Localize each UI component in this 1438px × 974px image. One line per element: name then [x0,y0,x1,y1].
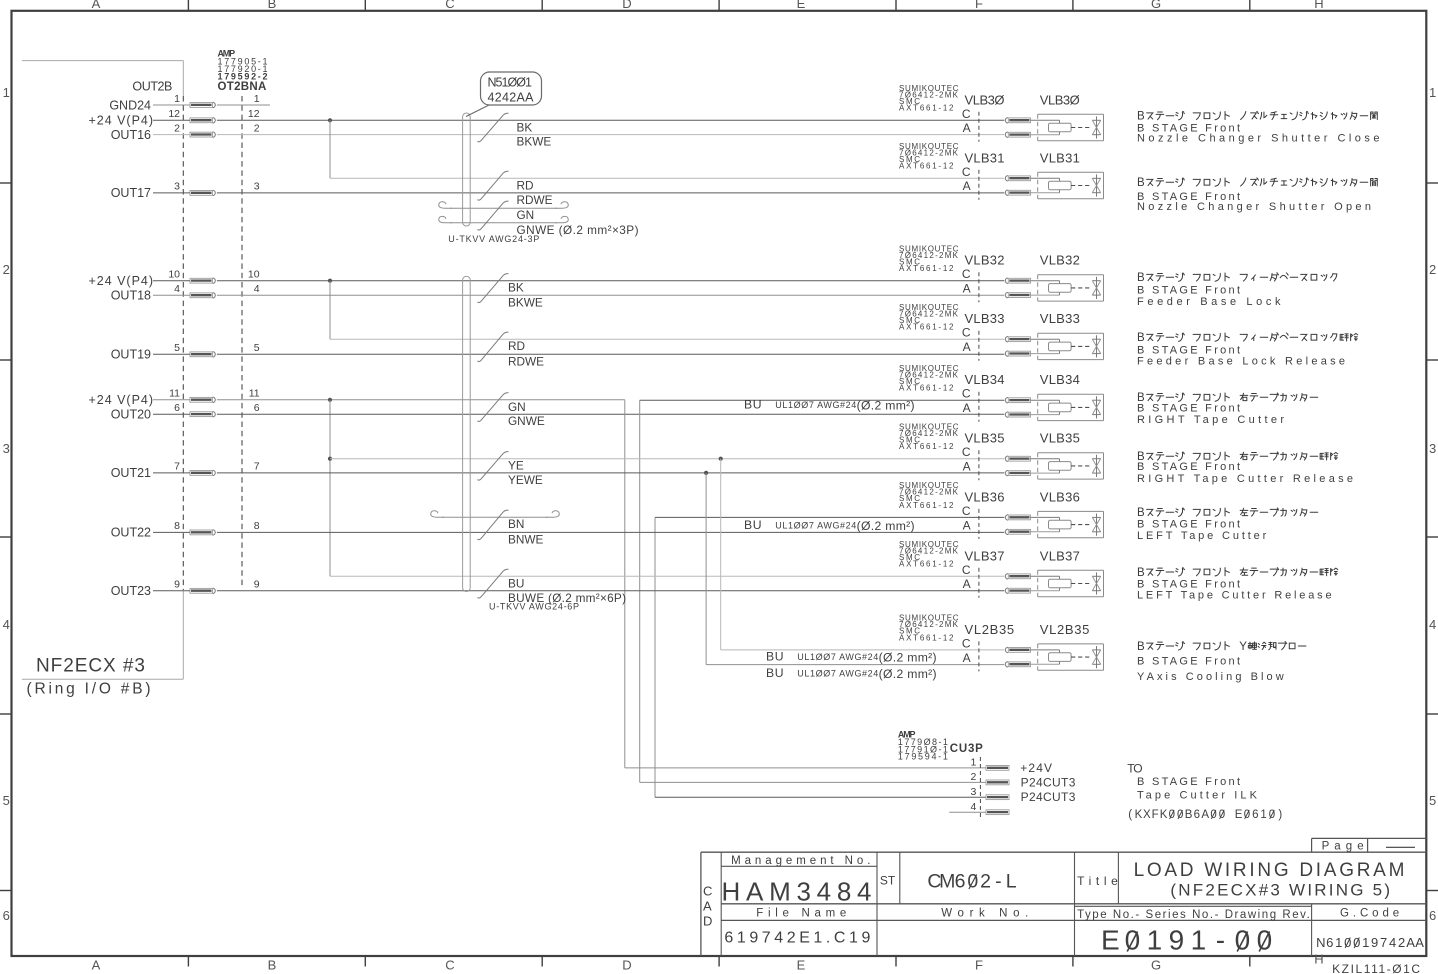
svg-text:179594-1: 179594-1 [898,752,948,762]
junction node +24V(10)/RD jog [328,279,332,283]
wire BU to VL2B35 A [706,664,1004,666]
wire CU3P pin3 P24CUT3 [655,796,986,798]
svg-text:6: 6 [1252,809,1258,821]
wire BU to VL2B35 C [721,649,1005,651]
svg-text:A: A [963,340,971,354]
svg-text:CU3P: CU3P [950,743,983,755]
svg-text:P24CUT3: P24CUT3 [1021,790,1076,804]
twisted pair BK/BKWE marker and labels [478,274,543,310]
svg-text:H: H [1314,0,1323,11]
svg-text:AXT661-12: AXT661-12 [899,264,954,273]
svg-text:P24CUT3: P24CUT3 [1021,775,1076,789]
svg-text:OUT21: OUT21 [111,466,151,480]
wire RD jog vertical from +24V(12) [329,120,331,178]
VLB30 description text [1137,111,1380,145]
svg-text:2: 2 [1429,262,1436,277]
title block type/series/drawing rev [1077,909,1310,956]
OT2B pin 6 (OUT20) terminal [111,402,260,422]
svg-text:3: 3 [3,441,10,456]
svg-text:1: 1 [174,93,180,105]
wire OUT16 pin2 (BKWE) to VLB30 A [153,134,1004,136]
svg-text:C: C [962,445,971,459]
cable sheath N51001 (U-TKVV AWG24-3P) [463,113,471,226]
solenoid valve VLB30 [899,84,1104,142]
wire OUT21 pin7 (YEWE) to VLB35 A [153,472,1004,474]
solenoid valve VLB32 [899,244,1104,302]
svg-text:VLB34: VLB34 [1040,372,1080,387]
svg-text:BK: BK [508,281,524,295]
svg-text:VLB31: VLB31 [1040,150,1080,165]
svg-text:VLB3Ø: VLB3Ø [965,92,1005,107]
svg-text:E: E [797,958,806,973]
wire label BU UL1007 (VL2B35 A) [766,666,937,681]
svg-text:K: K [1135,809,1143,821]
svg-text:(Ø.2 mm²): (Ø.2 mm²) [857,519,915,533]
solenoid valve VLB37 [899,540,1104,598]
svg-text:1: 1 [1191,924,1207,955]
svg-text:4: 4 [254,283,260,295]
svg-text:6: 6 [1326,935,1333,950]
wire vertical branch to VL2B35 C [720,459,722,650]
svg-text:4: 4 [970,801,976,813]
svg-text:-: - [1216,924,1225,955]
svg-text:6: 6 [1429,908,1436,923]
connector CU3P part numbers (AMP) [898,730,983,762]
svg-text:L: L [1006,871,1017,893]
svg-text:C: C [962,326,971,340]
svg-text:+24 V(P4): +24 V(P4) [89,114,154,128]
svg-text:1: 1 [1260,809,1266,821]
title block file name [724,907,870,946]
solenoid valve VLB34 [899,364,1104,422]
svg-text:AXT661-12: AXT661-12 [899,162,954,171]
svg-text:D: D [622,958,631,973]
svg-text:4: 4 [1429,617,1436,632]
VL2B35 description text [1137,641,1306,683]
title block title [1077,860,1404,900]
svg-text:A: A [963,577,971,591]
svg-text:AXT661-12: AXT661-12 [899,633,954,642]
svg-text:OT2BNA: OT2BNA [218,81,267,93]
junction node YE branch [328,457,332,461]
svg-text:2: 2 [1398,935,1405,950]
svg-text:12: 12 [168,108,180,120]
svg-text:BKWE: BKWE [517,135,552,149]
title block page cell [1312,838,1427,852]
OT2B pin 4 (OUT18) terminal [111,283,260,303]
svg-text:3: 3 [970,786,976,798]
svg-text:E: E [1101,924,1120,955]
OT2B pin 10 (+24 V(P4)) terminal [89,269,260,289]
svg-text:OUT17: OUT17 [111,186,151,200]
twisted pair GN/GNWE marker and labels [478,201,639,237]
svg-text:F: F [975,958,983,973]
svg-text:(Ø.2 mm²): (Ø.2 mm²) [857,399,915,413]
svg-text:YAxis Cooling Blow: YAxis Cooling Blow [1137,671,1284,683]
svg-text:8: 8 [174,520,180,532]
title block [701,852,1426,956]
svg-text:OUT20: OUT20 [111,408,151,422]
svg-text:N: N [1316,935,1325,950]
solenoid valve VLB33 [899,303,1104,361]
svg-text:6: 6 [174,402,180,414]
svg-text:7: 7 [1380,935,1387,950]
svg-text:VLB31: VLB31 [965,150,1005,165]
solenoid valve VLB36 [899,481,1104,539]
twisted pair YE/YEWE marker and labels [478,452,543,487]
svg-text:BU: BU [744,398,762,412]
svg-text:M: M [939,871,955,893]
svg-text:YE: YE [508,459,524,473]
svg-text:B: B [268,0,277,11]
svg-text:7: 7 [174,461,180,473]
svg-text:B: B [1137,567,1145,579]
wire +24V(P4) pin12 (BK) to VLB30 C [153,119,1004,121]
svg-text:B: B [1185,809,1193,821]
svg-text:VLB37: VLB37 [1040,548,1080,563]
svg-text:A: A [1406,935,1415,950]
svg-text:BU: BU [744,518,762,532]
svg-text:2: 2 [970,771,976,783]
svg-text:+24V: +24V [1020,761,1052,775]
CU3P pin 4 terminal [970,801,1009,815]
CU3P destination note [1127,762,1282,822]
svg-text:C: C [703,884,712,899]
svg-text:VLB37: VLB37 [965,548,1005,563]
svg-text:G: G [1151,958,1161,973]
junction node +24V(12)/RD jog [328,118,332,122]
svg-text:RDWE: RDWE [517,193,553,207]
VLB33 description text [1137,332,1358,367]
svg-text:LOAD WIRING DIAGRAM: LOAD WIRING DIAGRAM [1134,860,1405,881]
OT2B pin 7 (OUT21) terminal [111,461,260,481]
unused wire BN (coiled both ends) [431,511,559,517]
svg-text:F: F [1152,809,1159,821]
svg-text:K: K [1160,809,1168,821]
OT2B pin 12 (+24 V(P4)) terminal [89,108,260,128]
svg-text:OUT2B: OUT2B [132,79,172,93]
svg-text:3: 3 [254,181,260,193]
svg-text:F: F [975,0,983,11]
wire BU (P24CUT3) from CU3P pin3 to VLB36 C [655,517,1004,797]
svg-text:2: 2 [174,122,180,134]
CU3P pin 1 terminal [970,757,1052,775]
svg-text:LEFT Tape Cutter: LEFT Tape Cutter [1137,530,1267,542]
svg-text:File Name: File Name [756,907,846,919]
svg-text:A: A [92,958,101,973]
svg-text:9: 9 [1371,935,1378,950]
junction node VL2B35 C branch [719,457,723,461]
svg-text:6: 6 [1194,809,1200,821]
svg-text:5: 5 [1429,793,1436,808]
svg-text:C: C [962,107,971,121]
svg-text:A: A [963,651,971,665]
svg-text:1: 1 [3,85,10,100]
svg-text:VL2B35: VL2B35 [1040,622,1090,637]
wire RD to VLB33 C [330,338,1004,340]
svg-text:OUT16: OUT16 [111,128,151,142]
wire GND24 pin1 stub [153,104,270,106]
svg-text:AXT661-12: AXT661-12 [899,104,954,113]
svg-text:5: 5 [3,793,10,808]
wire CU3P pin2 P24CUT3 [640,781,986,783]
svg-text:BN: BN [508,517,524,531]
OT2B pin 2 (OUT16) terminal [111,122,260,142]
svg-text:VLB33: VLB33 [965,311,1005,326]
svg-text:E: E [797,0,806,11]
CU3P pin 3 terminal [970,786,1075,804]
svg-text:UL1ØØ7 AWG#24: UL1ØØ7 AWG#24 [775,521,856,531]
svg-text:AXT661-12: AXT661-12 [899,442,954,451]
svg-text:LEFT Tape Cutter Release: LEFT Tape Cutter Release [1137,590,1332,602]
wire OUT19 pin5 (RDWE) to VLB33 A [153,353,1004,355]
svg-text:Title: Title [1077,874,1118,888]
svg-text:N51ØØ1: N51ØØ1 [488,75,533,89]
svg-text:A: A [1201,809,1209,821]
twisted pair RD/RDWE marker and labels [478,332,545,368]
NF2ECX #3 Ring I/O unit boundary box [22,61,183,680]
svg-text:VLB35: VLB35 [965,431,1005,446]
connector OT2B dashed boundary (unit side) [182,96,184,590]
svg-text:1: 1 [1429,85,1436,100]
svg-text:UL1ØØ7 AWG#24: UL1ØØ7 AWG#24 [797,669,878,679]
svg-text:TO: TO [1127,762,1142,776]
svg-text:1: 1 [970,757,976,769]
svg-text:(Ø.2 mm²): (Ø.2 mm²) [879,651,937,665]
svg-text:C: C [962,504,971,518]
svg-text:Y: Y [1239,641,1247,653]
svg-text:4: 4 [3,617,10,632]
VLB34 description text [1137,392,1318,426]
svg-text:C: C [445,958,454,973]
OT2B pin 1 (GND24) terminal [109,93,259,113]
svg-text:C: C [962,165,971,179]
svg-text:AXT661-12: AXT661-12 [899,501,954,510]
svg-text:6: 6 [254,402,260,414]
svg-text:E: E [1235,809,1243,821]
svg-text:9: 9 [254,579,260,591]
svg-text:+24 V(P4): +24 V(P4) [89,274,154,288]
svg-text:RD: RD [508,339,525,353]
svg-text:ST: ST [880,874,896,888]
svg-text:VLB32: VLB32 [965,253,1005,268]
unused wire GNWE (coiled both ends) [439,216,568,222]
svg-text:B: B [1137,177,1145,189]
svg-text:4: 4 [174,283,180,295]
wire RD jog vertical from +24V(10) [329,281,331,340]
svg-text:GND24: GND24 [109,98,151,112]
svg-text:-: - [995,871,1002,893]
wire BU (P24CUT3) from CU3P pin2 to VLB34 C [640,399,1005,401]
svg-text:B: B [1137,111,1145,123]
svg-text:AXT661-12: AXT661-12 [899,384,954,393]
svg-text:11: 11 [169,388,180,400]
svg-text:VLB35: VLB35 [1040,431,1080,446]
twisted pair BK/BKWE marker and labels [478,113,552,148]
twisted pair BU/BUWE marker and labels [478,569,627,605]
svg-text:H: H [1314,952,1323,967]
svg-text:NF2ECX #3: NF2ECX #3 [36,656,145,677]
svg-text:VLB36: VLB36 [965,489,1005,504]
svg-text:1: 1 [1147,924,1163,955]
svg-text:2: 2 [980,871,991,893]
wire OUT20 pin6 (GNWE) to VLB34 A [153,413,1004,415]
svg-text:OUT23: OUT23 [111,584,151,598]
svg-text:8: 8 [254,520,260,532]
svg-text:10: 10 [168,269,180,281]
svg-text:4242AA: 4242AA [488,90,535,104]
title block CAD label [703,884,712,929]
svg-text:(Ring I/O #B): (Ring I/O #B) [27,680,151,697]
connector OT2B dashed boundary (cable side) [241,96,243,588]
svg-text:X: X [1143,809,1151,821]
svg-text:BUWE (Ø.2 mm²×6P): BUWE (Ø.2 mm²×6P) [508,591,626,605]
OT2B pin 9 (OUT23) terminal [111,579,260,599]
svg-text:D: D [703,914,712,929]
wire label BU UL1007 (VLB34 C) [744,398,915,413]
svg-text:A: A [1415,935,1424,950]
svg-text:3: 3 [1429,441,1436,456]
solenoid valve VL2B35 [899,614,1104,672]
connector CU3P dashed boundary [979,757,981,820]
svg-text:BKWE: BKWE [508,295,543,309]
svg-text:BU: BU [766,666,784,680]
svg-text:OUT19: OUT19 [111,348,151,362]
svg-text:7: 7 [254,461,260,473]
wire label BU UL1007 (VLB36 C) [744,518,915,533]
wire +24V(P4) pin11 (GN) to CU3P pin1 feed [153,399,625,401]
OT2B pin 5 (OUT19) terminal [111,342,260,362]
svg-text:GNWE (Ø.2 mm²×3P): GNWE (Ø.2 mm²×3P) [517,223,639,237]
svg-text:RDWE: RDWE [508,354,544,368]
svg-text:BU: BU [508,576,524,590]
svg-text:1: 1 [1335,935,1342,950]
svg-text:C: C [962,636,971,650]
solenoid valve VLB35 [899,422,1104,480]
svg-text:D: D [622,0,631,11]
VLB35 description text [1137,451,1353,485]
OT2B pin 3 (OUT17) terminal [111,181,260,201]
svg-text:2: 2 [254,122,260,134]
svg-text:179592-2: 179592-2 [218,72,268,82]
svg-text:9: 9 [174,579,180,591]
svg-text:+24 V(P4): +24 V(P4) [89,393,154,407]
svg-text:C: C [962,563,971,577]
wire CU3P pin1 +24V [625,767,986,769]
svg-text:3: 3 [174,181,180,193]
wire vertical CU3P pin2 up to VLB34 C [639,400,641,782]
svg-text:VLB33: VLB33 [1040,311,1080,326]
svg-text:A: A [963,121,971,135]
svg-text:1: 1 [1362,935,1369,950]
CU3P pin 2 terminal [970,771,1075,789]
svg-text:C: C [445,0,454,11]
svg-text:A: A [92,0,101,11]
svg-text:(: ( [1128,809,1132,821]
svg-text:B: B [1137,641,1145,653]
svg-text:A: A [703,899,712,914]
svg-text:G: G [1151,0,1161,11]
svg-text:5: 5 [254,342,260,354]
solenoid valve VLB31 [899,142,1104,200]
twisted pair RD/RDWE marker and labels [478,171,553,207]
svg-text:A: A [963,518,971,532]
VLB36 description text [1137,507,1318,542]
cable sheath (U-TKVV AWG24-6P) [463,276,471,591]
VLB31 description text [1137,177,1377,213]
title block G.Code [1316,908,1424,950]
OT2B pin 11 (+24 V(P4)) terminal [89,388,260,408]
svg-text:KZIL111-Ø1C: KZIL111-Ø1C [1332,962,1420,974]
svg-text:): ) [1278,809,1282,821]
svg-text:RD: RD [517,178,534,192]
svg-text:B: B [1137,332,1145,344]
svg-text:11: 11 [249,388,260,400]
svg-text:A: A [963,401,971,415]
svg-text:1: 1 [254,93,260,105]
wire vertical branch to VL2B35 A [705,473,707,665]
svg-text:C: C [962,267,971,281]
svg-text:5: 5 [174,342,180,354]
svg-text:Type No.- Series No.- Drawing: Type No.- Series No.- Drawing Rev. [1077,909,1310,921]
svg-text:VLB32: VLB32 [1040,253,1080,268]
wire OUT23 pin9 (BUWE) to VLB37 A [153,590,1004,592]
svg-text:VLB34: VLB34 [965,372,1005,387]
wire RD to VLB31 C [330,177,1004,179]
VLB37 description text [1137,567,1338,602]
svg-text:VL2B35: VL2B35 [965,622,1015,637]
wire label BU UL1007 (VL2B35 C) [766,650,937,665]
svg-text:4: 4 [1389,935,1396,950]
svg-text:AXT661-12: AXT661-12 [899,560,954,569]
NF2ECX #3 label [27,656,151,698]
title block management number [722,855,872,907]
svg-text:C: C [962,387,971,401]
svg-text:2: 2 [3,262,10,277]
twisted pair GN/GNWE marker and labels [478,393,545,428]
wire +24V(P4) pin10 (BK) to VLB32 C [153,280,1004,282]
svg-text:9: 9 [1169,924,1185,955]
svg-text:BNWE: BNWE [508,532,544,546]
title block ST / machine type [880,871,1017,893]
svg-text:OUT18: OUT18 [111,289,151,303]
junction node +24V(11)/YE-BU jog [328,398,332,402]
wire YE to VLB35 C [330,458,1004,460]
svg-text:A: A [963,460,971,474]
wire CU3P pin4 stub [949,811,986,813]
wire jog vertical +24V(11) to YE and BU [329,400,331,577]
svg-text:6: 6 [955,871,966,893]
svg-text:VLB36: VLB36 [1040,489,1080,504]
svg-text:B: B [1137,272,1145,284]
connector OT2B part numbers (AMP) [218,48,268,93]
svg-text:GN: GN [508,400,526,414]
svg-text:GN: GN [517,208,535,222]
svg-text:BU: BU [766,650,784,664]
junction node VL2B35 A branch [704,471,708,475]
svg-text:12: 12 [248,108,260,120]
OT2B pin 8 (OUT22) terminal [111,520,260,540]
svg-text:(Ø.2 mm²): (Ø.2 mm²) [879,667,937,681]
svg-text:UL1ØØ7 AWG#24: UL1ØØ7 AWG#24 [797,652,878,662]
svg-text:AXT661-12: AXT661-12 [899,323,954,332]
svg-text:GNWE: GNWE [508,414,545,428]
svg-text:6: 6 [3,908,10,923]
svg-text:10: 10 [248,269,260,281]
svg-text:A: A [963,179,971,193]
svg-text:YEWE: YEWE [508,473,543,487]
svg-text:A: A [963,282,971,296]
